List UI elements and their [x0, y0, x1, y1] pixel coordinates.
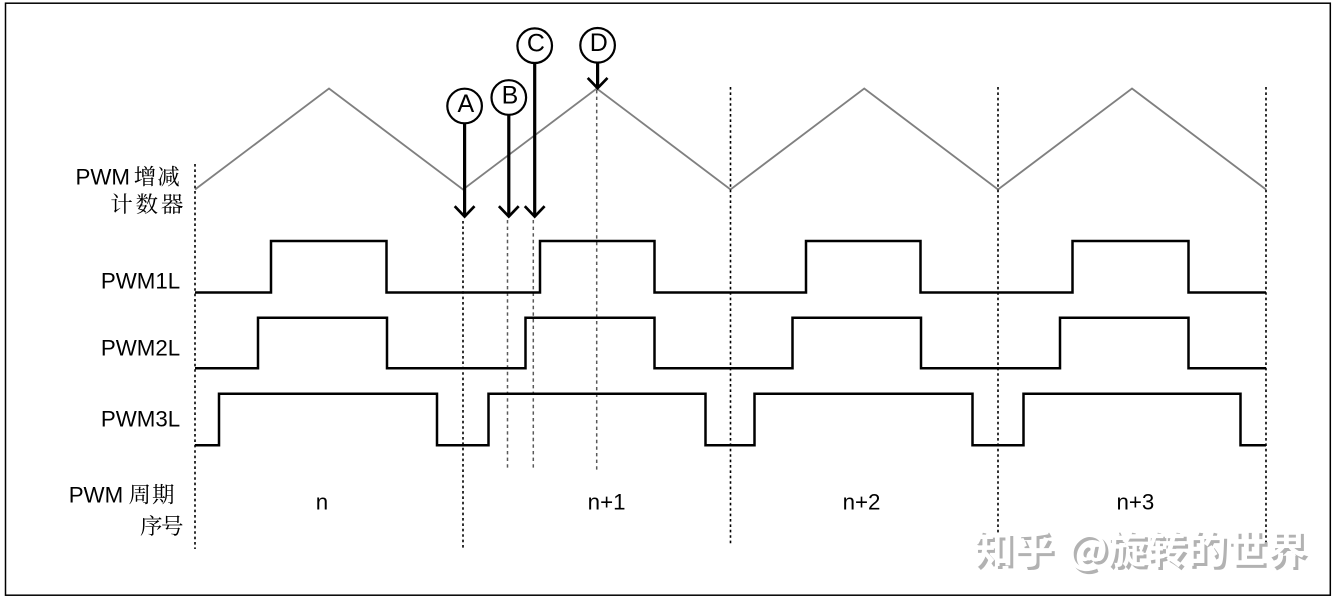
svg-text:PWM: PWM [69, 483, 124, 508]
waveform PWM1L [195, 241, 1266, 293]
period boundary dotted line 5 [1265, 87, 1267, 543]
period boundary dotted line 2 [462, 221, 464, 549]
svg-text:D: D [590, 29, 608, 57]
svg-text:n: n [316, 489, 328, 514]
waveform PWM2L [195, 318, 1266, 369]
marker B: circle, label, arrow [492, 80, 527, 216]
svg-text:n+2: n+2 [843, 489, 881, 514]
svg-text:A: A [457, 90, 474, 118]
svg-text:B: B [502, 81, 519, 109]
svg-text:C: C [527, 30, 545, 58]
period boundary dotted line 1 [194, 164, 196, 549]
period boundary dotted line 4 [997, 87, 999, 544]
marker A: circle, label, arrow [447, 89, 482, 217]
PWM up/down counter triangle waveform [195, 89, 1266, 190]
svg-text:PWM1L: PWM1L [101, 269, 180, 294]
marker D: circle, label, arrow [580, 28, 615, 88]
period boundary dotted line 3 [730, 87, 732, 546]
marker C: circle, label, arrow [517, 28, 552, 216]
marker B dashed line [507, 220, 509, 470]
watermark 知乎 @旋转的世界 [974, 530, 1308, 575]
marker C dashed line [532, 220, 534, 470]
svg-text:n+1: n+1 [588, 489, 626, 514]
label: PWM period number (PWM 周期 / 序号) [69, 483, 183, 536]
svg-text:n+3: n+3 [1116, 489, 1154, 514]
label: PWM up/down counter (PWM 增减 / 计数器) [76, 165, 183, 214]
svg-text:PWM: PWM [76, 165, 131, 190]
marker D dashed line [596, 90, 598, 470]
svg-text:PWM2L: PWM2L [101, 336, 180, 361]
svg-text:PWM3L: PWM3L [101, 407, 180, 432]
waveform PWM3L [195, 394, 1266, 445]
